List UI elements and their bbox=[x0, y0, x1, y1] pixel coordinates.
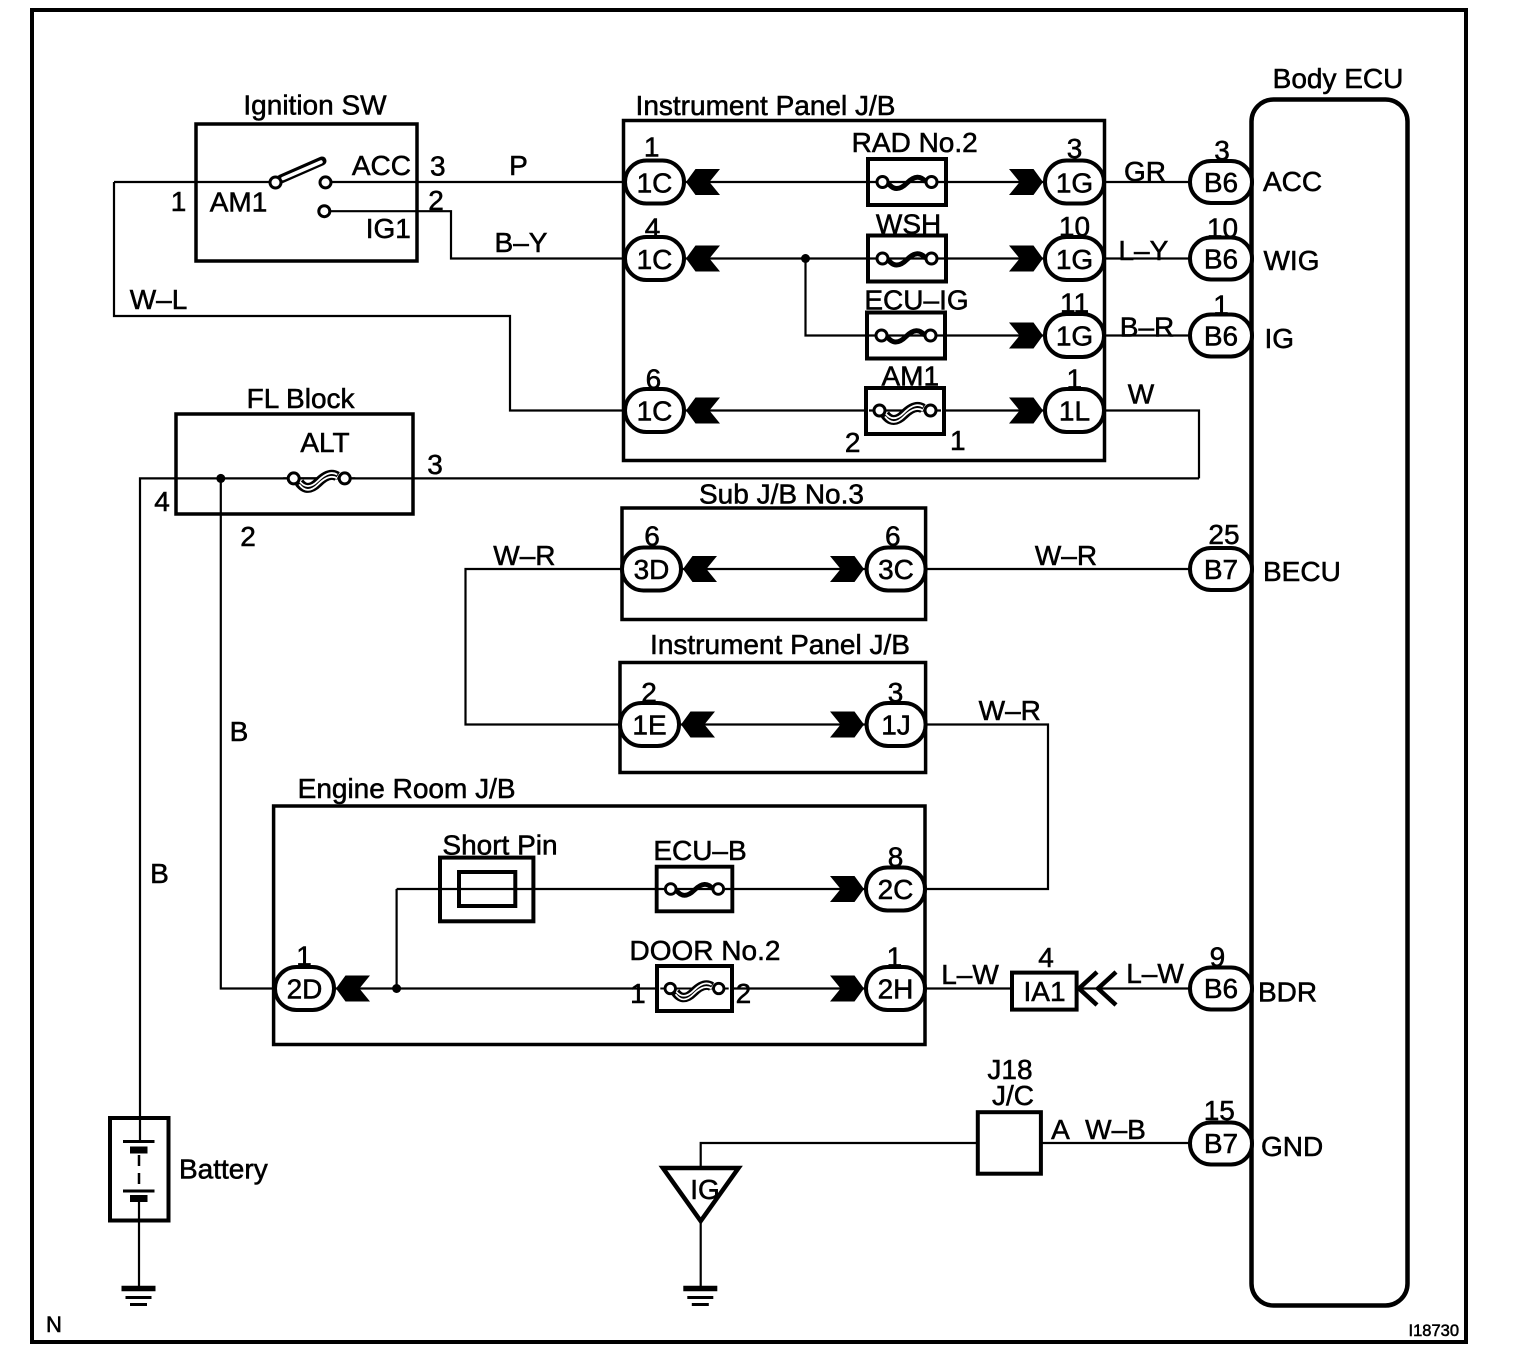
junction dot on WSH wire bbox=[801, 254, 810, 263]
svg-text:Instrument Panel J/B: Instrument Panel J/B bbox=[636, 90, 896, 121]
svg-text:P: P bbox=[509, 150, 528, 181]
fuse DOOR No.2 bbox=[657, 966, 732, 1011]
svg-text:4: 4 bbox=[1038, 942, 1054, 973]
junction connector J18 J/C box bbox=[978, 1112, 1041, 1174]
battery plate short top bbox=[130, 1147, 148, 1154]
svg-text:6: 6 bbox=[646, 364, 662, 395]
svg-text:1C: 1C bbox=[637, 244, 673, 275]
svg-text:4: 4 bbox=[645, 213, 661, 244]
svg-text:6: 6 bbox=[644, 521, 660, 552]
svg-text:B7: B7 bbox=[1204, 1128, 1238, 1159]
svg-text:B: B bbox=[230, 716, 249, 747]
svg-text:1: 1 bbox=[1213, 290, 1229, 321]
IG ground triangle bbox=[663, 1168, 739, 1221]
svg-text:AM1: AM1 bbox=[210, 187, 268, 218]
svg-text:B6: B6 bbox=[1204, 244, 1238, 275]
svg-text:1G: 1G bbox=[1056, 321, 1093, 352]
connector 1G pin 3 bbox=[1009, 169, 1043, 195]
svg-text:4: 4 bbox=[154, 486, 170, 517]
svg-text:1C: 1C bbox=[637, 168, 673, 199]
connector 1J pin 3 bbox=[830, 712, 864, 738]
svg-text:ALT: ALT bbox=[300, 427, 349, 458]
connector B7 pin 15 GND bbox=[1190, 1123, 1252, 1165]
svg-text:3: 3 bbox=[427, 449, 443, 480]
svg-text:GR: GR bbox=[1124, 156, 1166, 187]
svg-text:DOOR No.2: DOOR No.2 bbox=[630, 935, 781, 966]
svg-text:B6: B6 bbox=[1204, 973, 1238, 1004]
wire battery to ground bbox=[138, 1199, 140, 1288]
svg-text:2C: 2C bbox=[878, 874, 914, 905]
svg-text:W–R: W–R bbox=[493, 540, 555, 571]
switch common contact AM1 bbox=[270, 177, 281, 188]
instrument panel J/B box (second) bbox=[620, 663, 926, 773]
svg-text:BECU: BECU bbox=[1263, 556, 1341, 587]
ground battery bbox=[122, 1289, 156, 1305]
connector 1C pin 6 bbox=[625, 389, 684, 432]
wire W-L from pin1 to 1C pin6 bbox=[114, 182, 627, 411]
wire IG1 to 1C pin4, B-Y bbox=[330, 211, 627, 258]
wire ACC to 1C pin1, P bbox=[331, 181, 627, 183]
svg-text:1: 1 bbox=[950, 425, 966, 456]
svg-text:B–R: B–R bbox=[1120, 312, 1174, 343]
svg-text:WSH: WSH bbox=[876, 209, 941, 240]
wire FL pin4 to battery bbox=[140, 478, 176, 1141]
battery plate long top bbox=[123, 1140, 155, 1143]
svg-text:IG: IG bbox=[690, 1174, 720, 1205]
wire AM1 pin1 bbox=[114, 181, 270, 183]
svg-text:Battery: Battery bbox=[179, 1154, 268, 1185]
svg-text:2: 2 bbox=[641, 677, 657, 708]
svg-text:B–Y: B–Y bbox=[495, 227, 548, 258]
wire 3C to B7 BECU, W-R bbox=[926, 568, 1192, 570]
switch lever bbox=[281, 161, 322, 179]
svg-text:W: W bbox=[1128, 379, 1155, 410]
svg-text:1: 1 bbox=[171, 186, 187, 217]
junction dot door row bbox=[392, 984, 401, 993]
wire 3D to 3C bbox=[680, 568, 867, 570]
svg-text:W–L: W–L bbox=[130, 284, 188, 315]
wire junction short pin to door row bbox=[396, 889, 398, 989]
connector 3D pin 6 bbox=[622, 548, 681, 591]
svg-text:3: 3 bbox=[888, 677, 904, 708]
svg-text:AM1: AM1 bbox=[882, 361, 940, 392]
svg-text:8: 8 bbox=[888, 842, 904, 873]
svg-text:3C: 3C bbox=[878, 554, 914, 585]
svg-text:1: 1 bbox=[296, 941, 312, 972]
svg-text:ACC: ACC bbox=[352, 150, 411, 181]
svg-text:11: 11 bbox=[1060, 288, 1089, 319]
wire J/C to B7 GND bbox=[1041, 1142, 1192, 1144]
connector B6 pin 10 WIG bbox=[1190, 238, 1252, 280]
svg-text:Ignition SW: Ignition SW bbox=[243, 90, 387, 121]
connector 2D pin 1 bbox=[275, 967, 334, 1010]
connector 2C pin 8 bbox=[830, 876, 864, 902]
svg-text:2: 2 bbox=[736, 978, 752, 1009]
connector 2H pin 1 bbox=[830, 976, 864, 1002]
wire IG triangle to J/C bbox=[701, 1143, 978, 1168]
svg-text:ECU–IG: ECU–IG bbox=[864, 285, 968, 316]
short pin inner box bbox=[459, 872, 515, 906]
svg-text:WIG: WIG bbox=[1264, 245, 1320, 276]
wire 1J to 2C, W-R bbox=[925, 725, 1048, 890]
fuse ECU-B bbox=[657, 867, 733, 912]
wire 1E to 1J bbox=[678, 723, 867, 725]
svg-text:IA1: IA1 bbox=[1023, 976, 1065, 1007]
fuse AM1 (fusible link) bbox=[866, 388, 944, 434]
svg-text:2: 2 bbox=[845, 427, 861, 458]
svg-text:2: 2 bbox=[240, 521, 256, 552]
svg-text:6: 6 bbox=[885, 521, 901, 552]
svg-text:Sub J/B No.3: Sub J/B No.3 bbox=[699, 479, 864, 510]
wire through ALT fuse to 1L wire bbox=[176, 477, 1199, 479]
wire 1C1 to RAD fuse bbox=[684, 181, 868, 183]
wire short pin row bbox=[397, 888, 657, 890]
connector B7 pin 25 BECU bbox=[1190, 548, 1252, 590]
Engine Room J/B box bbox=[274, 806, 925, 1045]
ignition switch box bbox=[196, 124, 417, 261]
connector 1G pin 11 bbox=[1009, 323, 1043, 349]
wire 2D to DOOR fuse bbox=[334, 987, 657, 989]
wire 2H to IA1, L-W bbox=[925, 987, 1012, 989]
wire IG triangle to ground bbox=[700, 1221, 702, 1287]
wire DOOR fuse to 2H bbox=[732, 987, 866, 989]
svg-text:1J: 1J bbox=[881, 710, 911, 741]
fuse RAD No.2 bbox=[868, 159, 946, 205]
svg-text:Instrument Panel J/B: Instrument Panel J/B bbox=[650, 629, 910, 660]
svg-text:IG1: IG1 bbox=[366, 213, 411, 244]
ground IG bbox=[683, 1289, 717, 1305]
svg-text:B6: B6 bbox=[1204, 321, 1238, 352]
svg-text:L–Y: L–Y bbox=[1118, 235, 1168, 266]
connector 1C pin 1 bbox=[625, 161, 684, 204]
svg-text:W–R: W–R bbox=[1035, 540, 1097, 571]
svg-text:3: 3 bbox=[430, 151, 446, 182]
svg-text:1G: 1G bbox=[1056, 244, 1093, 275]
svg-text:9: 9 bbox=[1210, 942, 1226, 973]
FL Block box bbox=[176, 414, 413, 514]
svg-text:1: 1 bbox=[887, 942, 903, 973]
Sub J/B No.3 box bbox=[622, 508, 926, 620]
wire RAD fuse to 1G3 bbox=[946, 181, 1045, 183]
battery plate short bottom bbox=[130, 1195, 148, 1202]
svg-text:1C: 1C bbox=[637, 396, 673, 427]
wire 1L1 W down to ALT wire bbox=[1104, 411, 1199, 479]
svg-text:BDR: BDR bbox=[1258, 977, 1317, 1008]
fusible link ALT bbox=[283, 473, 355, 490]
wire ECU-IG fuse to 1G11 bbox=[945, 334, 1045, 336]
svg-text:W–B: W–B bbox=[1085, 1114, 1146, 1145]
wire 1G10 to B6, L-Y bbox=[1104, 257, 1192, 259]
wire IA1 to B6 BDR bbox=[1077, 987, 1192, 989]
svg-text:N: N bbox=[46, 1312, 62, 1337]
svg-text:Short Pin: Short Pin bbox=[442, 830, 557, 861]
connector 1L pin 1 bbox=[1009, 398, 1043, 424]
svg-text:25: 25 bbox=[1208, 519, 1239, 550]
svg-text:GND: GND bbox=[1261, 1131, 1323, 1162]
connector IA1 box bbox=[1012, 973, 1077, 1010]
connector 1E pin 2 bbox=[620, 703, 679, 746]
svg-text:3D: 3D bbox=[634, 554, 670, 585]
svg-text:10: 10 bbox=[1059, 211, 1090, 242]
wire AM1 fuse to 1L1 bbox=[944, 409, 1045, 411]
svg-text:B6: B6 bbox=[1204, 167, 1238, 198]
fuse WSH bbox=[868, 236, 946, 282]
svg-text:A: A bbox=[1051, 1114, 1070, 1145]
svg-text:FL Block: FL Block bbox=[247, 383, 356, 414]
wire 1C4 to WSH fuse bbox=[684, 257, 868, 259]
fuse ECU-IG bbox=[867, 313, 945, 359]
svg-text:L–W: L–W bbox=[941, 959, 999, 990]
battery dashed center bbox=[138, 1155, 141, 1188]
svg-text:3: 3 bbox=[1067, 133, 1083, 164]
svg-text:1G: 1G bbox=[1056, 168, 1093, 199]
connector 1G pin 10 bbox=[1009, 246, 1043, 272]
battery plate long bottom bbox=[123, 1190, 155, 1193]
wire junction to ECU-IG fuse bbox=[806, 259, 868, 336]
connector B6 pin 1 IG bbox=[1190, 315, 1252, 357]
instrument panel J/B box (top) bbox=[624, 121, 1105, 461]
svg-text:10: 10 bbox=[1207, 213, 1238, 244]
svg-text:J/C: J/C bbox=[992, 1080, 1034, 1111]
switch contact ACC bbox=[320, 177, 331, 188]
svg-text:I18730: I18730 bbox=[1409, 1322, 1459, 1340]
svg-text:1: 1 bbox=[644, 132, 660, 163]
switch contact IG1 bbox=[319, 206, 330, 217]
svg-text:2H: 2H bbox=[878, 974, 914, 1005]
svg-text:L–W: L–W bbox=[1126, 958, 1184, 989]
wire FL pin2 down to 2D bbox=[221, 478, 278, 988]
svg-text:W–R: W–R bbox=[979, 695, 1041, 726]
svg-text:Body ECU: Body ECU bbox=[1273, 63, 1404, 94]
svg-text:2D: 2D bbox=[287, 974, 323, 1005]
svg-text:Engine Room J/B: Engine Room J/B bbox=[298, 773, 516, 804]
junction dot FL block bbox=[216, 474, 225, 483]
wire WSH fuse to 1G10 bbox=[946, 257, 1045, 259]
svg-text:15: 15 bbox=[1204, 1095, 1235, 1126]
connector 1C pin 4 bbox=[625, 237, 684, 280]
Body ECU box bbox=[1252, 100, 1408, 1306]
wire 1G3 to B6, GR bbox=[1104, 181, 1192, 183]
connector B6 pin 3 ACC bbox=[1190, 161, 1252, 203]
svg-text:B7: B7 bbox=[1204, 554, 1238, 585]
connector 3C pin 6 bbox=[830, 556, 864, 582]
svg-text:RAD No.2: RAD No.2 bbox=[852, 127, 978, 158]
battery box bbox=[110, 1118, 169, 1221]
connector B6 pin 9 BDR bbox=[1190, 968, 1252, 1010]
wire 1C6 to AM1 fuse bbox=[684, 409, 866, 411]
wire 1G11 to B6, B-R bbox=[1104, 334, 1192, 336]
svg-text:3: 3 bbox=[1214, 135, 1230, 166]
svg-text:1E: 1E bbox=[632, 710, 666, 741]
svg-text:ECU–B: ECU–B bbox=[653, 835, 746, 866]
open chevron arrows bbox=[1079, 972, 1097, 1005]
wire ECU-B fuse to 2C bbox=[732, 888, 866, 890]
svg-text:B: B bbox=[150, 858, 169, 889]
wire W-R into 3D bbox=[466, 569, 623, 725]
svg-text:ACC: ACC bbox=[1263, 166, 1322, 197]
svg-text:1: 1 bbox=[1067, 364, 1083, 395]
svg-text:1L: 1L bbox=[1059, 396, 1090, 427]
svg-text:1: 1 bbox=[630, 978, 646, 1009]
short pin outer box bbox=[440, 858, 533, 922]
svg-text:IG: IG bbox=[1265, 323, 1295, 354]
